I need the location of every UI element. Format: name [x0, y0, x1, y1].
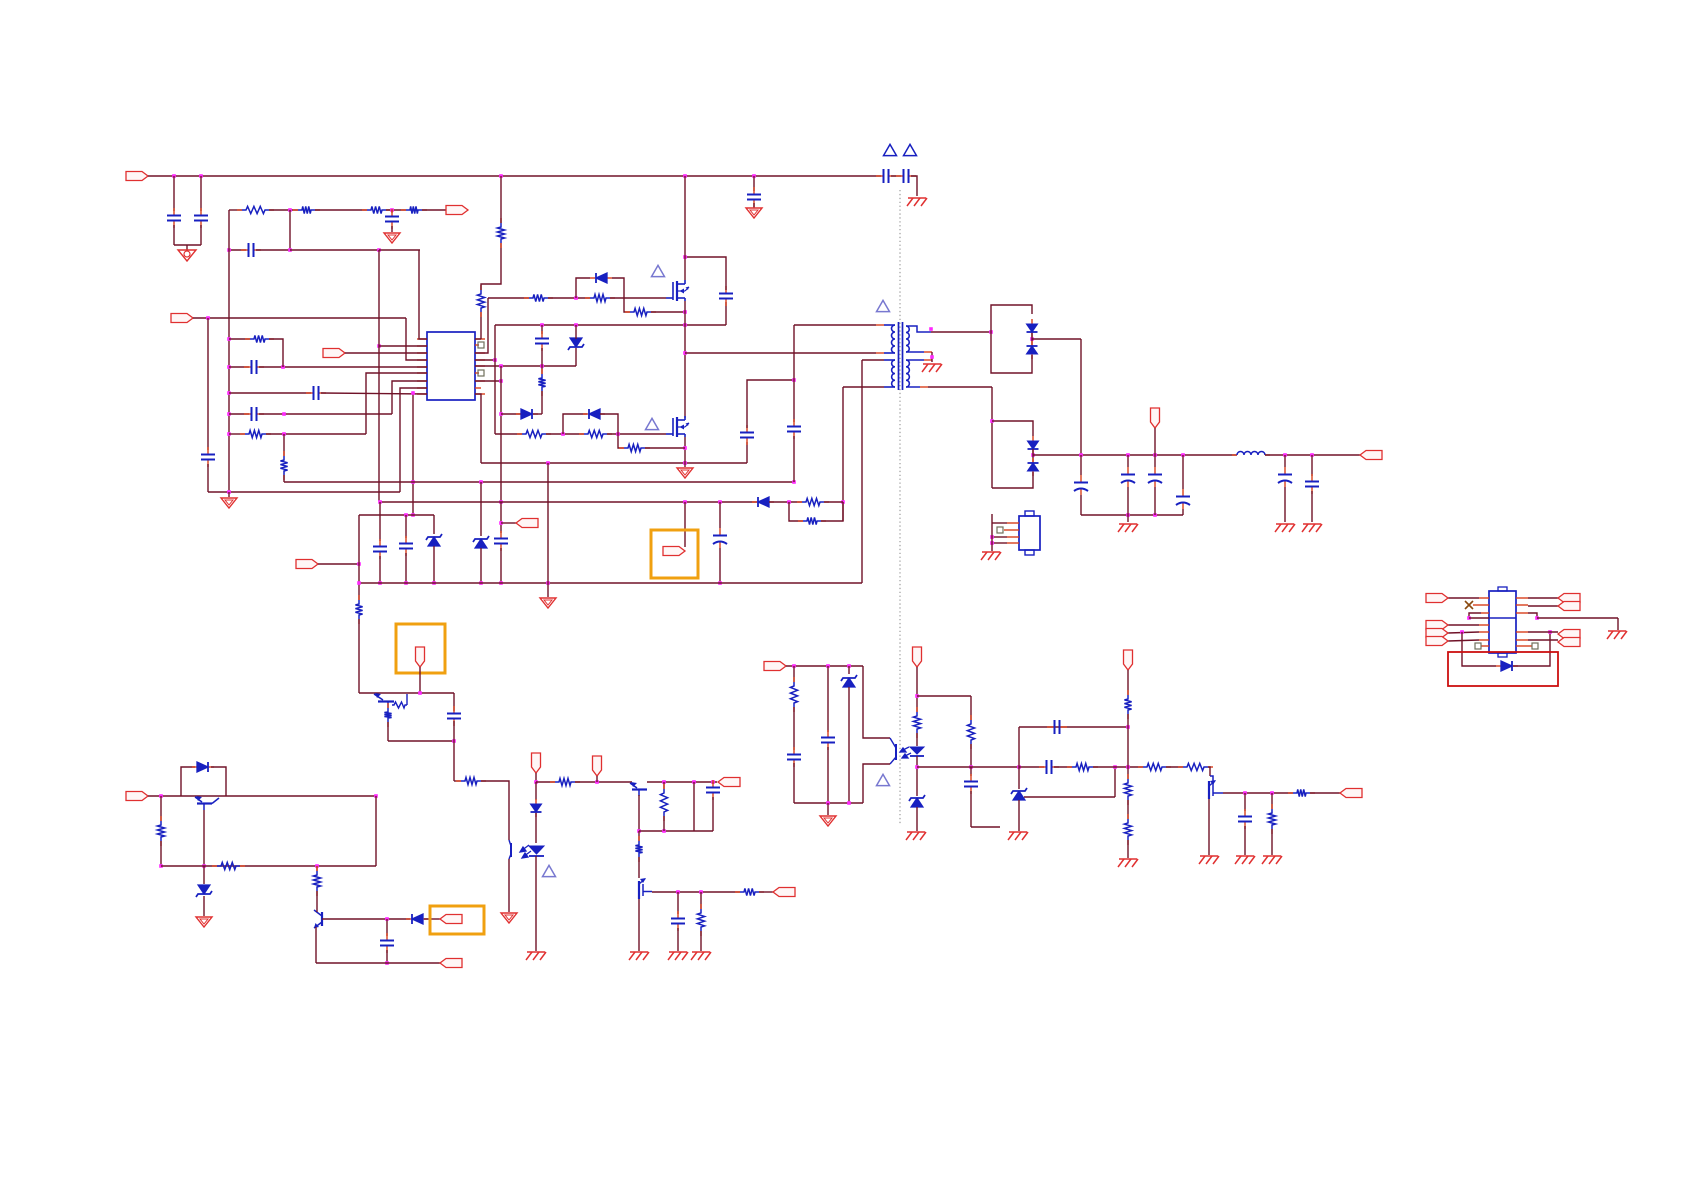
wire [1537, 617, 1618, 619]
wire [1448, 597, 1479, 599]
wire [884, 352, 895, 354]
pin 14 [1516, 597, 1528, 599]
IC U4 regulator [1489, 591, 1516, 653]
capacitor CY2 [896, 169, 916, 183]
junction [683, 310, 687, 314]
wire [160, 841, 162, 866]
wire rail 963 [316, 962, 440, 964]
wire [1513, 632, 1550, 666]
wire [916, 733, 918, 746]
wire rail 831 [639, 830, 713, 832]
wire [1469, 617, 1489, 619]
wire to pin8 [400, 388, 427, 492]
wire [379, 249, 420, 251]
capacitor C18 [1278, 467, 1292, 487]
junction [1079, 453, 1083, 457]
junction [499, 521, 503, 525]
pin 4 [1479, 624, 1489, 626]
resistor R4 [401, 206, 427, 213]
wire [1019, 766, 1044, 768]
wire [793, 436, 795, 482]
junction [432, 581, 436, 585]
junction [288, 208, 292, 212]
no-connect square pin17 [478, 342, 484, 348]
wire [911, 176, 917, 196]
highlight box 1 [396, 624, 445, 673]
red outline box [1448, 652, 1558, 686]
zener ZD2 [426, 534, 442, 546]
junction [683, 351, 687, 355]
transformer T1 secondary winding 2 [906, 360, 909, 387]
junction [595, 780, 599, 784]
transistor Q7 [314, 910, 322, 928]
wire x1081 [1080, 339, 1082, 455]
pin 18 [475, 338, 485, 340]
capacitor C26 [671, 911, 685, 931]
wire [203, 866, 205, 884]
junction [411, 391, 415, 395]
wire x359 [358, 515, 360, 600]
earth ground ZD6 [906, 832, 926, 840]
resistor R22 [456, 777, 486, 784]
junction [1283, 453, 1287, 457]
wire Q4 collector [638, 795, 640, 831]
wire [391, 226, 393, 232]
capacitor C7 [244, 407, 264, 421]
wire [759, 891, 773, 893]
wire x548 [547, 463, 549, 583]
wire [1310, 792, 1340, 794]
capacitor C20 [713, 528, 727, 548]
terminal VCC [663, 547, 685, 556]
wire Q2 source [684, 437, 686, 463]
wire [453, 693, 455, 711]
diode D3 [516, 409, 538, 419]
transistor Q3 PNP [374, 693, 394, 708]
wire [992, 522, 1007, 524]
junction [616, 432, 620, 436]
wire Q7 emitter [315, 927, 317, 963]
wire rect1 bottom [991, 332, 1032, 373]
highlight box 3 [430, 906, 484, 934]
wire gnd bus [1081, 514, 1183, 516]
diode D12 [1496, 661, 1518, 671]
pin 3 [1007, 536, 1019, 538]
wire [1469, 613, 1481, 618]
junction [574, 323, 578, 327]
capacitor C6 [244, 360, 264, 374]
capacitor C9 [719, 286, 733, 306]
capacitor C11 [740, 425, 754, 445]
wire [862, 359, 884, 361]
junction [561, 432, 565, 436]
inductor L1 [1232, 452, 1270, 456]
wire [827, 803, 829, 815]
wire [991, 523, 993, 551]
zener ZD5 [841, 675, 857, 687]
transistor Q6 PNP [195, 796, 219, 810]
MOSFET Q8 [1209, 776, 1223, 799]
wire [1018, 767, 1020, 789]
diode D2 [583, 409, 605, 419]
wire [1284, 455, 1286, 467]
wire [725, 302, 727, 325]
junction [826, 801, 830, 805]
wire [719, 548, 721, 583]
wire [1182, 455, 1184, 489]
wire long rail x379 [378, 250, 380, 501]
junction [385, 917, 389, 921]
wire [1127, 487, 1129, 522]
wire x376 [375, 796, 377, 866]
wire [1018, 800, 1020, 831]
no-connect square [1475, 643, 1481, 649]
wire [1166, 766, 1183, 768]
wire [1208, 767, 1210, 776]
wire [1244, 793, 1246, 811]
wire [992, 536, 1007, 538]
wire [917, 695, 971, 697]
wire [624, 298, 630, 312]
wire [596, 776, 598, 782]
wire [229, 249, 246, 251]
junction [841, 500, 845, 504]
no-connect square [1532, 643, 1538, 649]
transformer T1 aux winding [892, 360, 895, 387]
junction [288, 248, 292, 252]
resistor R39 [1178, 763, 1213, 770]
wire x501 riser [500, 366, 502, 502]
pin 5 [1479, 631, 1489, 633]
wire [386, 919, 388, 936]
capacitor C16 [1148, 467, 1162, 487]
wire [1154, 455, 1156, 467]
optocoupler U2 phototransistor [509, 840, 511, 859]
wire [685, 257, 726, 290]
pin [924, 351, 932, 353]
wire [1032, 449, 1034, 462]
wire [546, 433, 584, 435]
wire [992, 542, 1007, 544]
junction [374, 794, 378, 798]
IC U4 tab top [1498, 587, 1507, 591]
wire [290, 249, 379, 251]
wire [970, 744, 972, 767]
junction [227, 248, 231, 252]
resistor R27 [697, 904, 704, 936]
terminal U4-O4 [1558, 638, 1580, 647]
junction [499, 581, 503, 585]
wire x694 [693, 782, 695, 831]
junction [989, 330, 993, 334]
junction [683, 323, 687, 327]
wire [266, 433, 366, 435]
capacitor CY1 [876, 169, 896, 183]
wire bus 515 [359, 514, 434, 516]
capacitor C15 [1121, 467, 1135, 487]
capacitor CX2 [194, 208, 208, 228]
pin 9 [1516, 645, 1532, 647]
earth ground [1235, 856, 1255, 864]
junction [1017, 765, 1021, 769]
resistor R11 [585, 294, 615, 301]
wire [1284, 487, 1286, 522]
no-connect square [997, 527, 1003, 533]
capacitor C27 [380, 933, 394, 953]
earth ground [668, 952, 688, 960]
wire [1127, 455, 1129, 467]
pin 4 [1007, 542, 1019, 544]
capacitor C12 [787, 419, 801, 439]
wire [677, 892, 679, 914]
wire x843 [842, 387, 844, 521]
wire rect2 top [992, 421, 1033, 436]
terminal VCC4 [532, 753, 541, 773]
wire rail 693 [359, 692, 454, 694]
wire [358, 619, 360, 693]
connector tab top [1025, 511, 1034, 516]
wire rail 666 [786, 665, 863, 667]
optocoupler U2 light arrows [520, 845, 531, 858]
wire [1244, 826, 1246, 855]
wire [316, 911, 318, 912]
junction [315, 864, 319, 868]
wire bus 803 [794, 802, 863, 804]
capacitor C5 [201, 447, 215, 467]
wire [315, 209, 367, 211]
wire [229, 392, 311, 394]
wire [1019, 726, 1128, 728]
wire x862 [861, 360, 863, 583]
resistor R5 [245, 335, 274, 342]
earth ground CN1 [981, 552, 1001, 560]
wire rect2 bottom [992, 472, 1033, 488]
wire [173, 176, 175, 211]
pin 12 [1516, 612, 1528, 614]
wire [1448, 632, 1479, 633]
wire [827, 666, 829, 732]
wire [931, 331, 991, 333]
wire [480, 482, 482, 536]
wire [746, 442, 748, 463]
terminal U4-B [1426, 629, 1448, 638]
wire [1154, 428, 1156, 455]
wire [1127, 670, 1129, 695]
junction [159, 794, 163, 798]
capacitor C33 [1238, 809, 1252, 829]
junction [1270, 791, 1274, 795]
earth ground [1275, 524, 1295, 532]
wire [712, 797, 714, 831]
pin 11 [1516, 631, 1528, 633]
junction [662, 829, 666, 833]
marker triangle Y1 [884, 144, 897, 155]
earth ground divider [1118, 859, 1138, 867]
terminal U4-C [1426, 637, 1448, 646]
wire [481, 781, 509, 840]
wire Q7 base row [322, 918, 410, 920]
junction [377, 248, 381, 252]
wire [1054, 766, 1072, 768]
terminal CON4 [126, 792, 148, 801]
junction [499, 412, 503, 416]
wire [906, 386, 920, 388]
pin 8 [417, 387, 427, 389]
diode D9 [531, 799, 542, 817]
junction [452, 739, 456, 743]
pin [876, 352, 884, 354]
wire [269, 209, 298, 211]
resistor R23 [550, 778, 580, 785]
wire gate row Q2 [495, 433, 522, 435]
transistor Q4 PNP [630, 782, 647, 796]
wire [753, 203, 755, 208]
wire [793, 707, 795, 750]
ground ZD4 [196, 917, 212, 927]
capacitor C21 [373, 539, 387, 559]
terminal OUT sense [446, 206, 468, 215]
wire [207, 318, 209, 450]
no-connect square pin13 [478, 370, 484, 376]
pin 17 [475, 344, 479, 346]
zener ZD3 [473, 536, 489, 548]
wire [821, 502, 843, 521]
resistor R41 [1268, 804, 1275, 834]
capacitor C3 [385, 209, 399, 229]
capacitor C13 [747, 187, 761, 207]
junction [683, 255, 687, 259]
earth ground secondary CT [922, 364, 942, 372]
junction [540, 364, 544, 368]
earth ground U4 [1607, 631, 1627, 639]
junction [499, 379, 503, 383]
wire [1271, 829, 1273, 855]
junction [282, 412, 286, 416]
wire [638, 857, 640, 878]
ground opto2 [820, 816, 836, 826]
ground [384, 233, 400, 243]
junction [1030, 337, 1034, 341]
junction [676, 890, 680, 894]
wire [453, 721, 455, 741]
wire [793, 763, 795, 803]
junction [499, 364, 503, 368]
wire to pin9 [321, 393, 427, 394]
wire [793, 666, 795, 682]
resistor R7 [280, 451, 287, 480]
junction [683, 174, 687, 178]
junction [206, 316, 210, 320]
resistor R19 [355, 595, 362, 624]
resistor R20 [392, 694, 407, 708]
wire [1018, 727, 1020, 767]
wire stub [991, 514, 993, 523]
connector CN1 [1019, 516, 1040, 550]
wire primary top [794, 324, 876, 326]
wire [663, 782, 665, 789]
resistor R32 [967, 715, 974, 749]
wire to pin2 [379, 345, 427, 347]
junction [990, 541, 994, 545]
wire rect1 top [991, 305, 1032, 332]
resistor R9 [497, 218, 504, 248]
wire [386, 209, 406, 211]
wire [391, 210, 393, 213]
wire [1617, 618, 1619, 630]
terminal PS-ON2 [1340, 789, 1362, 798]
ground C13 [746, 208, 762, 218]
wire [684, 502, 686, 547]
wire [475, 338, 481, 340]
wire [174, 244, 201, 246]
wire [535, 773, 537, 782]
terminal VOUT [1360, 451, 1382, 460]
optocoupler U2 LED [529, 846, 544, 856]
resistor R12 [625, 308, 656, 315]
pin 2 [417, 345, 427, 347]
junction [227, 391, 231, 395]
wire [684, 463, 686, 467]
wire [173, 225, 175, 245]
wire pin16 riser [475, 298, 488, 353]
junction [787, 500, 791, 504]
junction [540, 323, 544, 327]
wire [916, 667, 918, 712]
junction [683, 500, 687, 504]
terminal PS-ON [440, 915, 462, 924]
optocoupler U3 LED [910, 747, 924, 756]
wire to pin6 [366, 373, 427, 434]
wire [1031, 333, 1033, 345]
optocoupler U3 light arrows [900, 747, 911, 758]
wire [256, 249, 290, 251]
capacitor C17 [1176, 489, 1190, 509]
wire [379, 556, 381, 583]
wire [186, 245, 188, 250]
resistor R35 [1124, 690, 1131, 719]
wire [1528, 597, 1558, 599]
wire [1528, 639, 1558, 641]
earth ground ZD7 [1008, 832, 1028, 840]
junction [546, 581, 550, 585]
wire [1528, 605, 1558, 607]
wire ground row [208, 491, 400, 493]
wire rail 502 [380, 501, 757, 503]
junction [227, 412, 231, 416]
wire to Q1 gate [610, 297, 666, 299]
zener ZD7 [1011, 788, 1027, 800]
junction [1126, 453, 1130, 457]
resistor R33 [913, 707, 920, 738]
marker triangle Y2 [904, 144, 917, 155]
wire [386, 950, 388, 963]
resistor R21 [384, 703, 391, 727]
wire AC rail [148, 175, 881, 177]
junction [227, 432, 231, 436]
wire [600, 414, 618, 434]
earth ground Q8 [1199, 856, 1219, 864]
resistor R18 [798, 517, 826, 524]
wire [200, 225, 202, 245]
pin 14 [475, 365, 485, 367]
capacitor CX1 [167, 208, 181, 228]
terminal VREF [323, 349, 345, 358]
junction [915, 765, 919, 769]
junction [202, 864, 206, 868]
wire [1080, 495, 1082, 515]
wire [500, 548, 502, 583]
wire rail 325 [495, 324, 726, 326]
